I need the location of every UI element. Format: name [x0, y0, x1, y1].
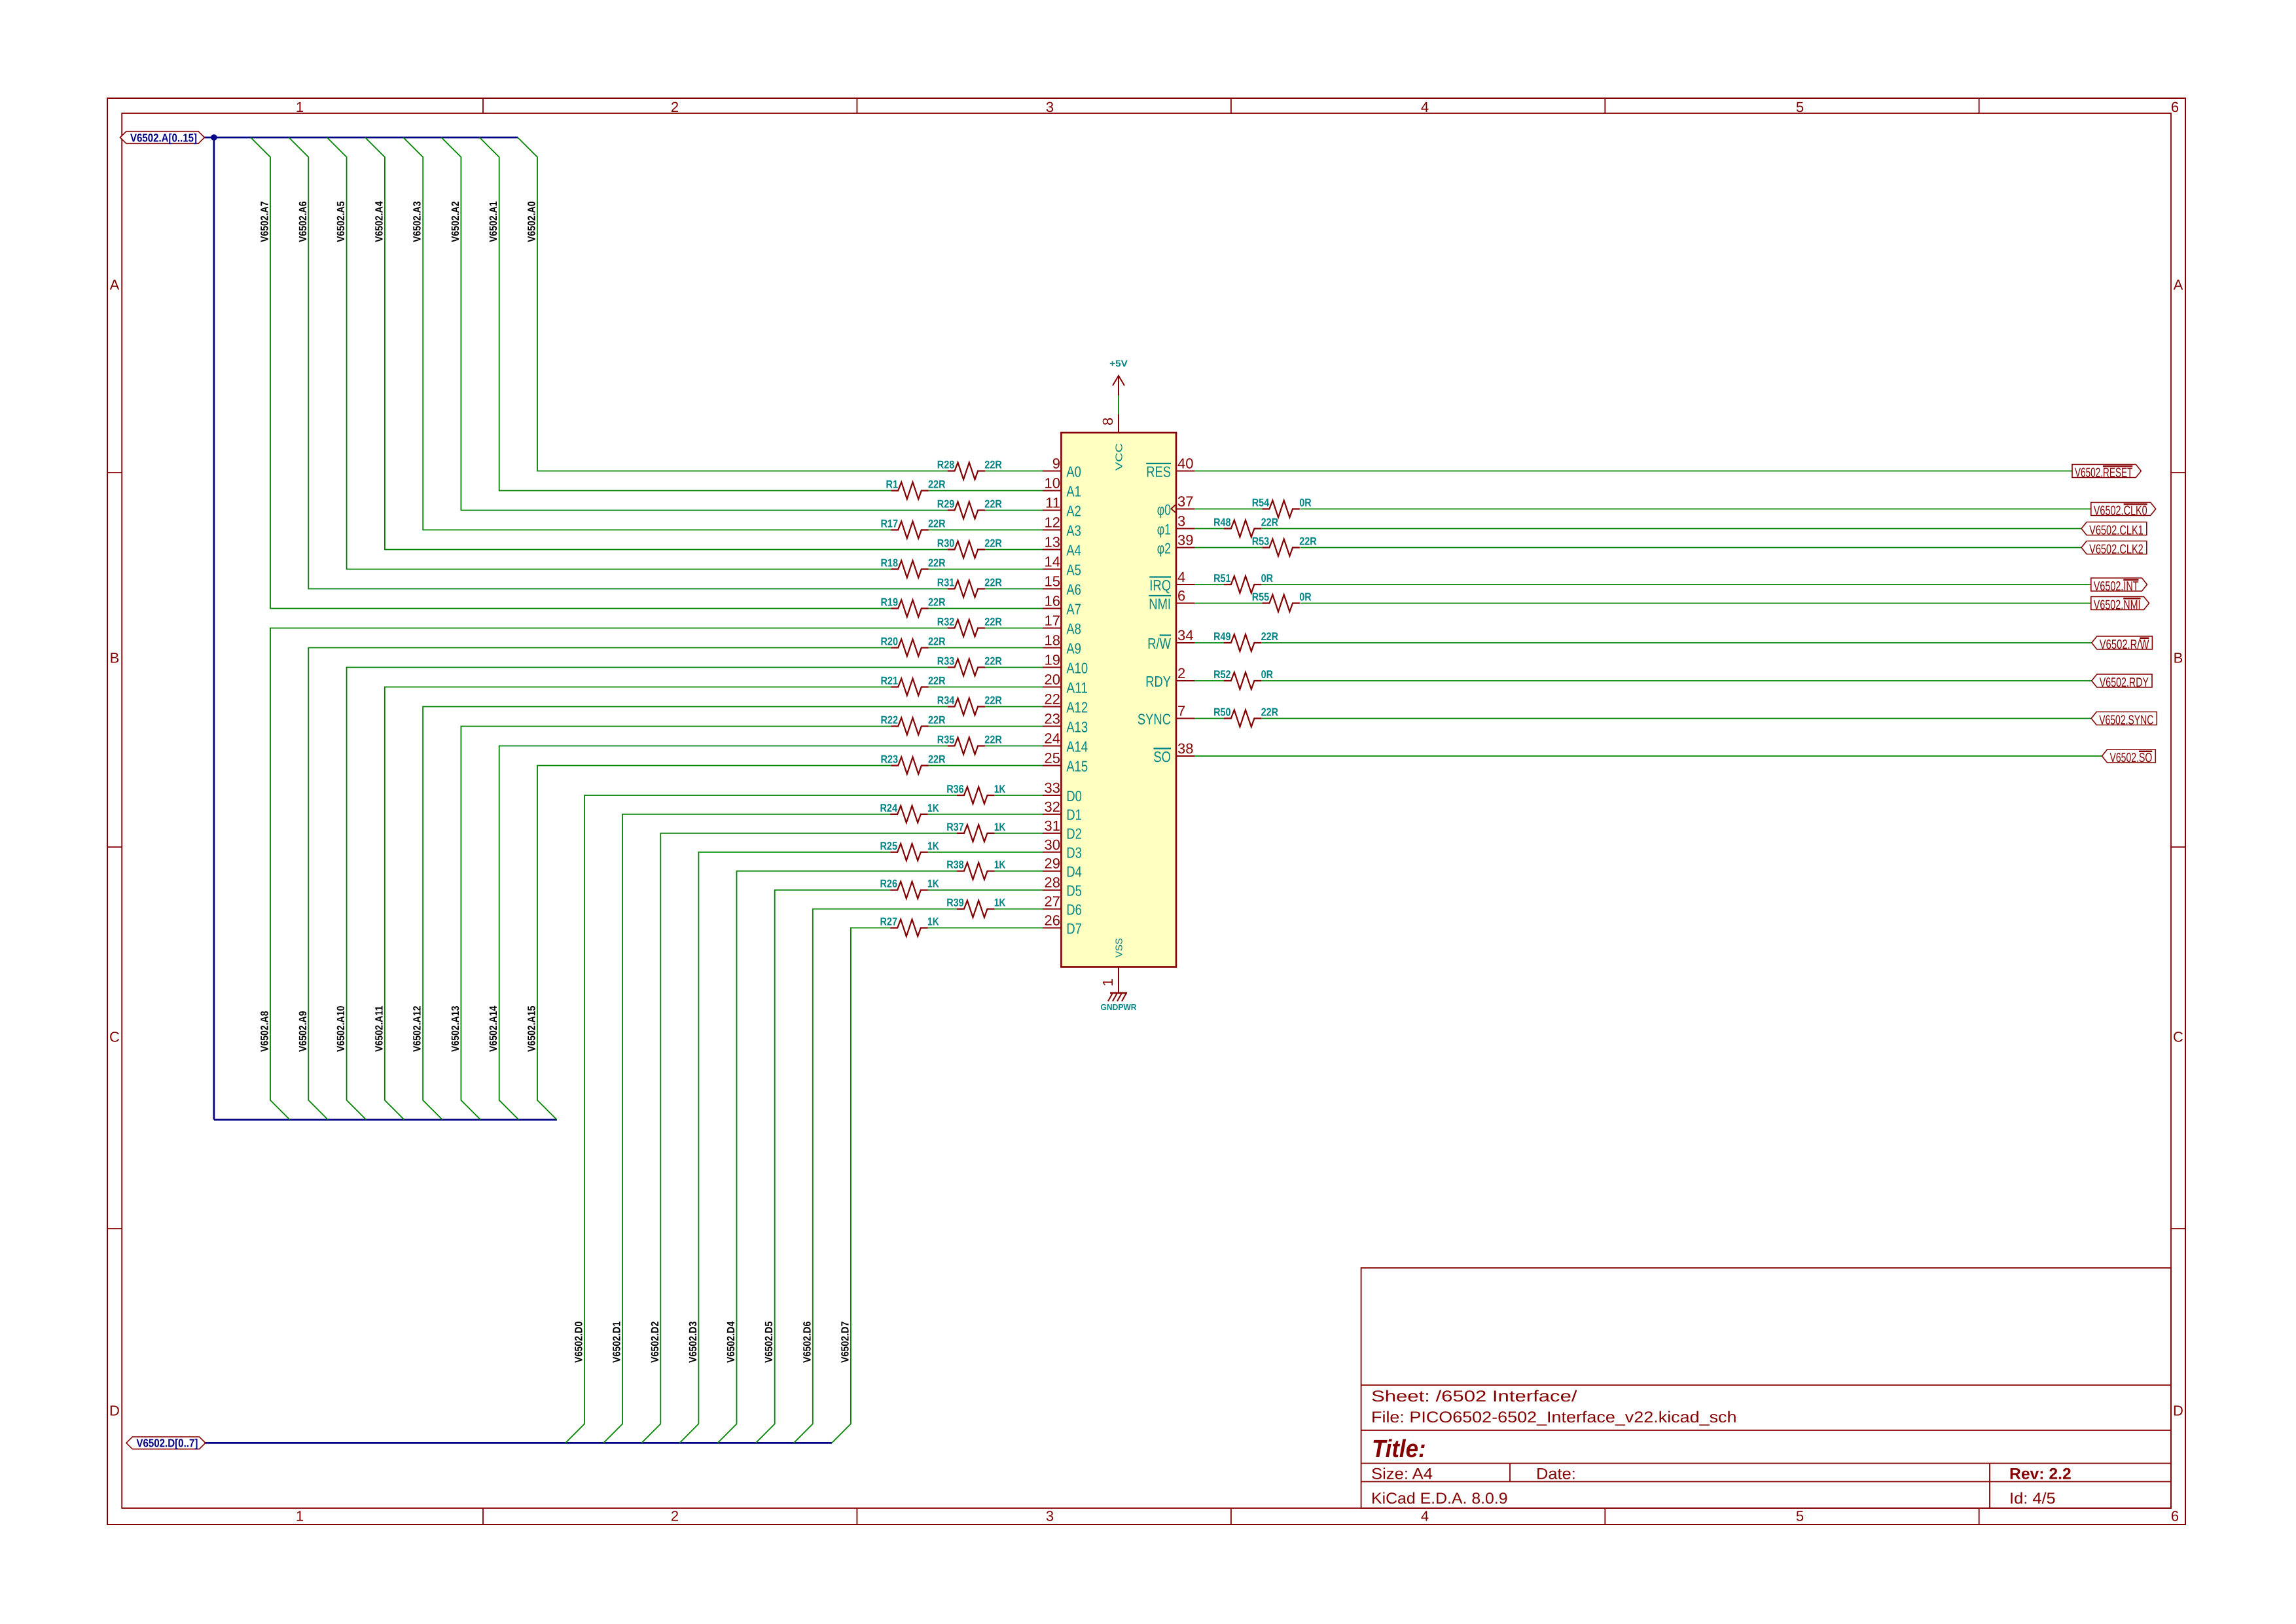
- svg-text:19: 19: [1045, 652, 1060, 668]
- svg-text:V6502.A10: V6502.A10: [335, 1006, 347, 1053]
- wire V6502.A1: [480, 137, 1043, 491]
- svg-text:22R: 22R: [928, 753, 946, 766]
- wire VCC to +5V: [1118, 395, 1119, 414]
- svg-text:1K: 1K: [927, 840, 939, 852]
- svg-text:V6502.A15: V6502.A15: [526, 1006, 538, 1053]
- wire V6502.A4: [365, 137, 1043, 550]
- svg-text:D5: D5: [1066, 882, 1082, 899]
- pin 22 A12: [1043, 691, 1088, 716]
- svg-text:0R: 0R: [1299, 497, 1312, 509]
- svg-text:V6502.A3: V6502.A3: [412, 201, 423, 242]
- svg-text:30: 30: [1045, 837, 1060, 853]
- svg-text:D7: D7: [1066, 920, 1082, 937]
- wire V6502.A7: [251, 137, 1043, 609]
- svg-text:22R: 22R: [984, 734, 1002, 746]
- svg-text:D0: D0: [1066, 787, 1082, 804]
- svg-text:V6502.A6: V6502.A6: [297, 201, 309, 242]
- svg-text:1K: 1K: [994, 783, 1006, 795]
- svg-text:V6502.INT: V6502.INT: [2094, 579, 2139, 594]
- svg-text:A2: A2: [1066, 502, 1081, 519]
- pin 26 D7: [1043, 912, 1082, 937]
- svg-text:φ1: φ1: [1157, 520, 1171, 537]
- wire V6502.A15: [537, 766, 1043, 1120]
- hierarchical label V6502.CLK2: [2081, 541, 2147, 557]
- resistor R25 1K: [880, 840, 940, 861]
- svg-text:V6502.A13: V6502.A13: [450, 1006, 461, 1053]
- svg-text:40: 40: [1177, 456, 1193, 472]
- svg-text:D4: D4: [1066, 863, 1082, 880]
- svg-text:2: 2: [1177, 665, 1185, 681]
- pin 6 NMI: [1149, 588, 1194, 613]
- svg-text:A: A: [2174, 277, 2183, 293]
- svg-text:R51: R51: [1213, 572, 1231, 585]
- svg-text:22R: 22R: [1261, 630, 1279, 643]
- wire V6502.A0: [518, 137, 1043, 471]
- pin 17 A8: [1043, 613, 1081, 638]
- frame column numbers: [296, 99, 2179, 1525]
- resistor R18 22R: [881, 557, 946, 578]
- svg-text:2: 2: [671, 1508, 679, 1525]
- svg-text:R38: R38: [946, 859, 964, 871]
- svg-text:34: 34: [1177, 627, 1193, 643]
- wire NMI: [1194, 603, 2091, 604]
- pin 37 φ0: [1157, 494, 1194, 518]
- svg-text:39: 39: [1177, 532, 1193, 549]
- svg-text:V6502.A9: V6502.A9: [297, 1011, 309, 1052]
- wire SYNC: [1194, 718, 2091, 719]
- svg-text:R31: R31: [937, 577, 955, 589]
- pin 23 A13: [1043, 711, 1088, 736]
- svg-text:R18: R18: [881, 557, 899, 569]
- svg-text:3: 3: [1177, 513, 1185, 530]
- pin 31 D2: [1043, 818, 1082, 842]
- svg-text:φ0: φ0: [1157, 501, 1171, 518]
- wire phi1: [1194, 528, 2081, 530]
- wire V6502.A5: [327, 137, 1043, 569]
- pin 8 VCC: [1100, 414, 1125, 471]
- svg-text:4: 4: [1421, 1508, 1429, 1525]
- svg-text:16: 16: [1045, 593, 1060, 609]
- resistor R26 1K: [880, 878, 940, 899]
- svg-text:V6502.SO: V6502.SO: [2110, 751, 2153, 765]
- svg-text:1: 1: [296, 1508, 304, 1525]
- pin 40 RES: [1146, 456, 1194, 480]
- resistor R52 0R: [1213, 668, 1273, 689]
- svg-text:C: C: [109, 1029, 120, 1045]
- svg-text:V6502.R/W: V6502.R/W: [2100, 638, 2149, 652]
- pin 24 A14: [1043, 731, 1088, 755]
- svg-text:B: B: [2174, 650, 2183, 666]
- svg-text:Date:: Date:: [1536, 1466, 1576, 1483]
- bus V6502.A[0..15] vertical: [213, 137, 215, 1120]
- wire V6502.A10: [347, 668, 1043, 1120]
- resistor R33 22R: [937, 655, 1002, 676]
- svg-text:File: PICO6502-6502_Interface_: File: PICO6502-6502_Interface_v22.kicad_…: [1371, 1409, 1737, 1426]
- svg-text:1K: 1K: [994, 859, 1006, 871]
- pin 14 A5: [1043, 554, 1081, 579]
- bus junction: [211, 134, 217, 141]
- svg-text:A5: A5: [1066, 561, 1081, 578]
- resistor R27 1K: [880, 916, 940, 937]
- wire RDY: [1194, 680, 2092, 681]
- svg-text:C: C: [2173, 1029, 2183, 1045]
- svg-text:D: D: [109, 1403, 120, 1419]
- frame row letters: [109, 277, 2183, 1419]
- svg-text:V6502.A2: V6502.A2: [450, 201, 461, 242]
- svg-text:6: 6: [2171, 99, 2179, 115]
- svg-text:V6502.D7: V6502.D7: [839, 1322, 851, 1363]
- svg-text:25: 25: [1045, 750, 1060, 767]
- svg-text:V6502.D[0..7]: V6502.D[0..7]: [136, 1437, 198, 1450]
- resistor R32 22R: [937, 616, 1002, 637]
- svg-text:V6502.A[0..15]: V6502.A[0..15]: [130, 131, 197, 144]
- svg-text:32: 32: [1045, 799, 1060, 815]
- svg-text:V6502.CLK0: V6502.CLK0: [2094, 504, 2147, 518]
- wire V6502.D3: [679, 852, 1043, 1443]
- svg-text:10: 10: [1045, 475, 1060, 492]
- svg-text:V6502.A12: V6502.A12: [412, 1006, 423, 1053]
- power +5V: [1109, 358, 1128, 395]
- svg-text:R32: R32: [937, 616, 955, 628]
- pin 11 A2: [1043, 495, 1081, 520]
- svg-text:V6502.SYNC: V6502.SYNC: [2099, 713, 2153, 728]
- pin 20 A11: [1043, 672, 1088, 696]
- svg-text:15: 15: [1045, 573, 1060, 590]
- resistor R20 22R: [881, 636, 946, 657]
- resistor R55 0R: [1252, 591, 1312, 612]
- svg-text:R33: R33: [937, 655, 955, 668]
- svg-text:R36: R36: [946, 783, 964, 795]
- resistor R34 22R: [937, 695, 1002, 715]
- svg-text:R29: R29: [937, 498, 955, 511]
- svg-text:R21: R21: [881, 675, 899, 687]
- svg-text:V6502.A11: V6502.A11: [373, 1006, 385, 1053]
- svg-text:22R: 22R: [984, 655, 1002, 668]
- svg-text:31: 31: [1045, 818, 1060, 834]
- svg-text:V6502.RESET: V6502.RESET: [2075, 466, 2132, 480]
- wire V6502.A8: [270, 628, 1043, 1120]
- svg-text:R19: R19: [881, 596, 899, 609]
- svg-text:22R: 22R: [1261, 516, 1279, 529]
- pin 29 D4: [1043, 856, 1082, 880]
- svg-text:IRQ: IRQ: [1149, 577, 1171, 594]
- svg-text:R20: R20: [881, 636, 899, 648]
- svg-text:Rev: 2.2: Rev: 2.2: [2009, 1466, 2072, 1483]
- svg-text:R54: R54: [1252, 497, 1270, 509]
- svg-text:V6502.D0: V6502.D0: [573, 1322, 585, 1363]
- resistor R1 22R: [886, 478, 946, 499]
- pin 15 A6: [1043, 573, 1081, 598]
- title block text: [1371, 1388, 2072, 1507]
- hierarchical label V6502.SYNC: [2091, 712, 2157, 728]
- svg-text:22R: 22R: [1299, 535, 1317, 548]
- svg-text:R35: R35: [937, 734, 955, 746]
- pin 39 φ2: [1157, 532, 1194, 557]
- svg-text:VSS: VSS: [1115, 938, 1125, 958]
- wire V6502.D2: [641, 833, 1043, 1443]
- svg-text:D3: D3: [1066, 844, 1082, 861]
- resistor R50 22R: [1213, 706, 1278, 727]
- pin 7 SYNC: [1138, 703, 1194, 728]
- svg-text:R30: R30: [937, 537, 955, 550]
- svg-text:A11: A11: [1066, 679, 1088, 696]
- svg-text:12: 12: [1045, 514, 1060, 531]
- resistor R21 22R: [881, 675, 946, 696]
- svg-text:22R: 22R: [984, 577, 1002, 589]
- resistor R35 22R: [937, 734, 1002, 755]
- svg-text:A12: A12: [1066, 698, 1088, 715]
- svg-text:1K: 1K: [994, 821, 1006, 833]
- svg-text:37: 37: [1177, 494, 1193, 510]
- wire V6502.D1: [603, 814, 1043, 1443]
- resistor R51 0R: [1213, 572, 1273, 593]
- wire V6502.D6: [794, 909, 1043, 1443]
- resistor R31 22R: [937, 577, 1002, 598]
- svg-text:22R: 22R: [1261, 706, 1279, 719]
- svg-text:Id: 4/5: Id: 4/5: [2009, 1490, 2056, 1507]
- svg-text:NMI: NMI: [1149, 595, 1171, 612]
- wire phi0: [1194, 509, 2091, 510]
- resistor R17 22R: [881, 518, 946, 539]
- pin 30 D3: [1043, 837, 1082, 861]
- svg-text:R22: R22: [881, 714, 899, 727]
- resistor R39 1K: [946, 897, 1006, 918]
- wire V6502.A6: [289, 137, 1043, 589]
- svg-text:A4: A4: [1066, 541, 1081, 558]
- svg-text:R1: R1: [886, 478, 899, 491]
- svg-text:R34: R34: [937, 695, 955, 707]
- svg-text:V6502.A7: V6502.A7: [259, 201, 271, 242]
- svg-text:A1: A1: [1066, 482, 1081, 499]
- pin 38 SO: [1153, 740, 1194, 765]
- svg-text:8: 8: [1100, 418, 1116, 425]
- frame border: [107, 98, 2185, 1525]
- wire V6502.A11: [385, 687, 1043, 1120]
- resistor R49 22R: [1213, 630, 1278, 651]
- svg-text:V6502.CLK1: V6502.CLK1: [2089, 524, 2144, 538]
- svg-text:22: 22: [1045, 691, 1060, 708]
- svg-text:A7: A7: [1066, 600, 1081, 617]
- hierarchical label V6502.CLK1: [2081, 522, 2147, 538]
- resistor R24 1K: [880, 802, 940, 823]
- pin 3 φ1: [1157, 513, 1194, 538]
- resistor R30 22R: [937, 537, 1002, 558]
- wire V6502.A13: [461, 727, 1043, 1120]
- svg-text:22R: 22R: [928, 518, 946, 530]
- wire phi2: [1194, 547, 2081, 549]
- wire V6502.A14: [499, 746, 1043, 1120]
- wire SO: [1194, 755, 2102, 757]
- svg-text:14: 14: [1045, 554, 1060, 570]
- svg-text:D6: D6: [1066, 901, 1082, 918]
- svg-text:V6502.A14: V6502.A14: [488, 1006, 499, 1053]
- svg-text:1K: 1K: [994, 897, 1006, 909]
- svg-text:R27: R27: [880, 916, 898, 928]
- pin 33 D0: [1043, 780, 1082, 804]
- svg-text:KiCad E.D.A. 8.0.9: KiCad E.D.A. 8.0.9: [1371, 1490, 1508, 1507]
- pin 1 VSS: [1100, 938, 1125, 993]
- svg-text:22R: 22R: [984, 695, 1002, 707]
- wire V6502.A3: [403, 137, 1043, 530]
- pin 13 A4: [1043, 534, 1081, 559]
- pin 28 D5: [1043, 875, 1082, 899]
- svg-text:SYNC: SYNC: [1138, 710, 1171, 727]
- resistor R53 22R: [1252, 535, 1317, 556]
- pin 4 IRQ: [1149, 569, 1194, 594]
- svg-text:5: 5: [1796, 99, 1804, 115]
- power GNDPWR: [1101, 967, 1138, 1012]
- svg-text:B: B: [110, 650, 120, 666]
- svg-text:R/W: R/W: [1147, 635, 1171, 652]
- svg-text:13: 13: [1045, 534, 1060, 550]
- svg-text:Title:: Title:: [1372, 1435, 1426, 1463]
- hierarchical label V6502.RDY: [2092, 674, 2152, 690]
- svg-text:38: 38: [1177, 740, 1193, 757]
- svg-text:R49: R49: [1213, 630, 1231, 643]
- resistor R29 22R: [937, 498, 1002, 519]
- pin 37 clock input marker: [1171, 505, 1175, 513]
- svg-text:20: 20: [1045, 672, 1060, 688]
- svg-text:V6502.A5: V6502.A5: [335, 201, 347, 242]
- svg-text:D2: D2: [1066, 825, 1082, 842]
- svg-text:V6502.D1: V6502.D1: [611, 1322, 623, 1363]
- resistor R54 0R: [1252, 497, 1312, 518]
- svg-text:V6502.A8: V6502.A8: [259, 1011, 271, 1052]
- wire R/W: [1194, 642, 2092, 643]
- pin 12 A3: [1043, 514, 1081, 539]
- svg-text:V6502.D2: V6502.D2: [649, 1322, 661, 1363]
- svg-text:R25: R25: [880, 840, 898, 852]
- svg-text:SO: SO: [1153, 748, 1171, 765]
- wire V6502.D0: [565, 795, 1043, 1443]
- svg-text:29: 29: [1045, 856, 1060, 872]
- svg-text:28: 28: [1045, 875, 1060, 891]
- resistor R48 22R: [1213, 516, 1278, 537]
- hierarchical label V6502.CLK0: [2091, 503, 2156, 518]
- svg-text:22R: 22R: [984, 537, 1002, 550]
- resistor R36 1K: [946, 783, 1006, 804]
- svg-text:V6502.RDY: V6502.RDY: [2100, 676, 2149, 690]
- svg-text:A6: A6: [1066, 581, 1081, 598]
- pin 2 RDY: [1145, 665, 1194, 690]
- svg-text:R28: R28: [937, 459, 955, 471]
- svg-text:1K: 1K: [927, 802, 939, 814]
- pin 16 A7: [1043, 593, 1081, 618]
- svg-text:V6502.D5: V6502.D5: [763, 1322, 775, 1363]
- svg-text:A0: A0: [1066, 463, 1081, 480]
- svg-text:1: 1: [1100, 979, 1116, 986]
- svg-text:22R: 22R: [928, 557, 946, 569]
- svg-text:22R: 22R: [928, 675, 946, 687]
- wire IRQ: [1194, 584, 2091, 585]
- hierarchical label V6502.A[0..15]: [120, 131, 205, 144]
- svg-text:R48: R48: [1213, 516, 1231, 529]
- svg-text:11: 11: [1045, 495, 1060, 511]
- IC 6502 CPU body: [1061, 433, 1176, 967]
- wire V6502.A12: [423, 707, 1043, 1120]
- pin 32 D1: [1043, 799, 1082, 823]
- svg-text:4: 4: [1177, 569, 1185, 585]
- svg-text:A: A: [110, 277, 120, 293]
- svg-text:5: 5: [1796, 1508, 1804, 1525]
- svg-text:4: 4: [1421, 99, 1429, 115]
- svg-text:22R: 22R: [984, 459, 1002, 471]
- resistor R19 22R: [881, 596, 946, 617]
- svg-text:3: 3: [1046, 99, 1054, 115]
- wire V6502.A2: [441, 137, 1043, 511]
- svg-text:R53: R53: [1252, 535, 1270, 548]
- svg-text:1: 1: [296, 99, 304, 115]
- svg-text:φ2: φ2: [1157, 539, 1171, 556]
- pin 34 R/W: [1147, 627, 1194, 652]
- pin 10 A1: [1043, 475, 1081, 500]
- svg-text:1K: 1K: [927, 878, 939, 890]
- svg-text:7: 7: [1177, 703, 1185, 719]
- svg-text:17: 17: [1045, 613, 1060, 629]
- wire V6502.D7: [832, 928, 1043, 1443]
- svg-text:A14: A14: [1066, 738, 1088, 755]
- svg-text:2: 2: [671, 99, 679, 115]
- svg-text:22R: 22R: [928, 714, 946, 727]
- svg-text:3: 3: [1046, 1508, 1054, 1525]
- svg-text:R23: R23: [881, 753, 899, 766]
- svg-text:33: 33: [1045, 780, 1060, 796]
- svg-text:D1: D1: [1066, 806, 1082, 823]
- svg-text:R26: R26: [880, 878, 898, 890]
- pin 25 A15: [1043, 750, 1088, 775]
- pin 9 A0: [1043, 456, 1081, 480]
- pin 18 A9: [1043, 632, 1081, 657]
- svg-text:R52: R52: [1213, 668, 1231, 681]
- svg-text:24: 24: [1045, 731, 1060, 747]
- resistor R37 1K: [946, 821, 1006, 842]
- svg-text:GNDPWR: GNDPWR: [1101, 1002, 1138, 1012]
- svg-text:RDY: RDY: [1145, 673, 1171, 690]
- svg-text:6: 6: [2171, 1508, 2179, 1525]
- svg-text:R37: R37: [946, 821, 964, 833]
- svg-text:VCC: VCC: [1115, 443, 1125, 471]
- pin 19 A10: [1043, 652, 1088, 677]
- hierarchical label V6502.NMI: [2091, 597, 2149, 613]
- svg-text:V6502.CLK2: V6502.CLK2: [2089, 543, 2144, 557]
- hierarchical label V6502.RESET: [2072, 465, 2141, 480]
- svg-text:A3: A3: [1066, 522, 1081, 539]
- svg-text:V6502.D6: V6502.D6: [801, 1322, 813, 1363]
- svg-text:V6502.A4: V6502.A4: [373, 201, 385, 242]
- title block: [1361, 1268, 2171, 1508]
- svg-text:22R: 22R: [984, 498, 1002, 511]
- svg-text:R50: R50: [1213, 706, 1231, 719]
- bus V6502.A[0..15] horizontal bottom: [214, 1119, 557, 1121]
- wire V6502.A9: [308, 648, 1043, 1120]
- svg-text:22R: 22R: [984, 616, 1002, 628]
- svg-text:0R: 0R: [1261, 668, 1274, 681]
- svg-text:0R: 0R: [1299, 591, 1312, 604]
- wire V6502.D4: [718, 871, 1043, 1443]
- svg-text:22R: 22R: [928, 596, 946, 609]
- resistor R22 22R: [881, 714, 946, 735]
- pin 27 D6: [1043, 893, 1082, 918]
- svg-text:+5V: +5V: [1109, 358, 1128, 369]
- resistor R28 22R: [937, 459, 1002, 480]
- svg-text:R24: R24: [880, 802, 898, 814]
- svg-text:V6502.D3: V6502.D3: [687, 1322, 699, 1363]
- resistor R38 1K: [946, 859, 1006, 880]
- hierarchical label V6502.D[0..7]: [126, 1437, 206, 1450]
- svg-text:23: 23: [1045, 711, 1060, 727]
- svg-text:9: 9: [1052, 456, 1060, 472]
- svg-text:A15: A15: [1066, 757, 1088, 774]
